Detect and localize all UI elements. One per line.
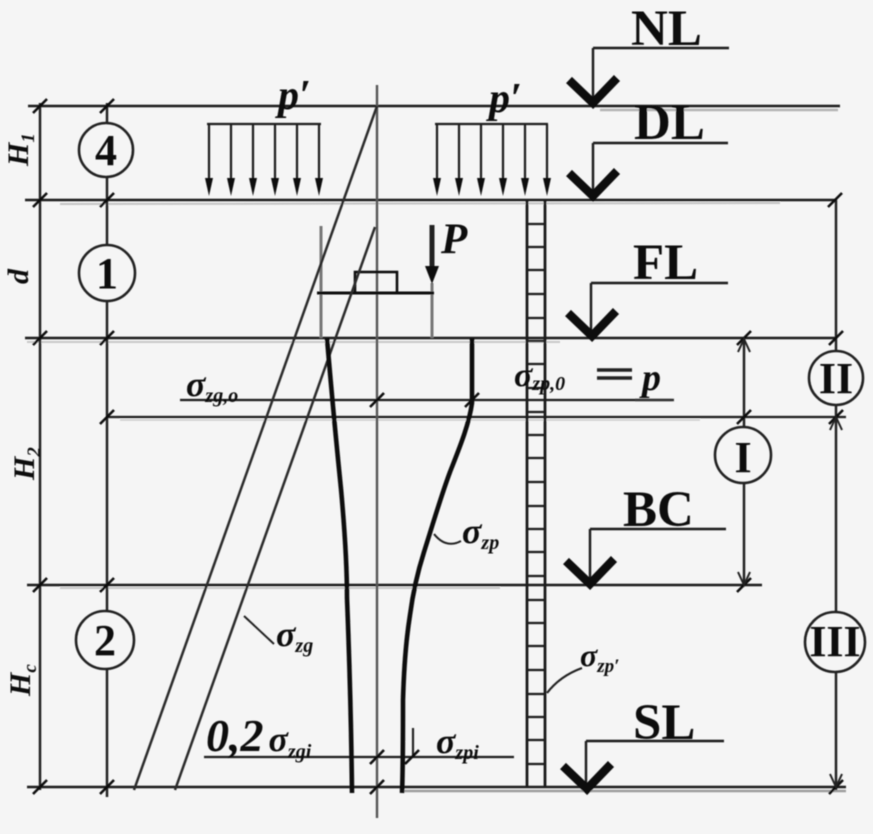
NL level mark [569, 1, 729, 103]
FL level mark [568, 235, 728, 336]
DL ground line [25, 199, 835, 202]
svg-text:p: p [639, 357, 661, 399]
center axis [376, 85, 378, 818]
distributed load p' right block [435, 124, 548, 182]
SL level mark [563, 695, 724, 789]
DL level mark [569, 95, 728, 196]
svg-text:P: P [440, 216, 468, 263]
svg-text:d: d [2, 268, 35, 284]
intermediate level line B [107, 416, 846, 418]
dimension I vertical [743, 338, 746, 585]
dimension III end arrows [830, 417, 842, 787]
svg-text:p′: p′ [275, 73, 311, 119]
sigma zg diagonal 2 [175, 227, 375, 790]
svg-text:II: II [819, 354, 853, 403]
SL bottom line [27, 786, 846, 789]
label sigma zp with leader [434, 511, 499, 554]
pile rungs [527, 224, 545, 764]
load P action line [431, 283, 434, 338]
svg-text:p′: p′ [486, 76, 522, 122]
svg-text:1: 1 [96, 249, 118, 298]
foundation pit left edge [320, 226, 323, 338]
soil layer circle 2 [76, 611, 134, 669]
force P arrow [425, 225, 439, 284]
svg-text:I: I [734, 433, 751, 482]
BC compressible boundary line [27, 584, 762, 586]
svg-text:4: 4 [95, 126, 117, 175]
footing base line [317, 292, 434, 295]
sigma zg diagonal 1 [134, 106, 377, 790]
BC level mark [566, 482, 726, 584]
NL ground line [28, 105, 840, 108]
sigma zp0 level line [180, 399, 672, 401]
label sigma zg with leader [244, 614, 313, 657]
left border vertical [39, 103, 42, 790]
svg-text:SL: SL [633, 695, 695, 751]
variant circle III [805, 612, 865, 672]
footing column rect [355, 272, 397, 293]
variant circle II [809, 351, 863, 405]
label sigma zp' with leader [547, 637, 620, 693]
dimension ticks [33, 99, 843, 794]
sigma zp curve left branch [327, 338, 352, 793]
svg-text:III: III [809, 617, 860, 666]
sigma zpi level line C [204, 756, 514, 758]
right border dimension vertical [835, 200, 838, 790]
soil layer circle 4 [79, 123, 133, 177]
left dimension vertical [106, 103, 109, 797]
sigma zpi short vertical [412, 728, 414, 757]
svg-text:2: 2 [94, 616, 116, 665]
sigma zp curve right branch [402, 338, 472, 793]
underline p [635, 399, 674, 401]
FL foundation level line [25, 337, 837, 339]
soil layer circle 1 [79, 245, 135, 301]
pile shaft [527, 200, 545, 787]
scan shadow grays [27, 110, 846, 791]
distributed load p' left block [207, 124, 321, 182]
variant circle I [715, 427, 771, 483]
dimension I end arrows [738, 339, 750, 585]
